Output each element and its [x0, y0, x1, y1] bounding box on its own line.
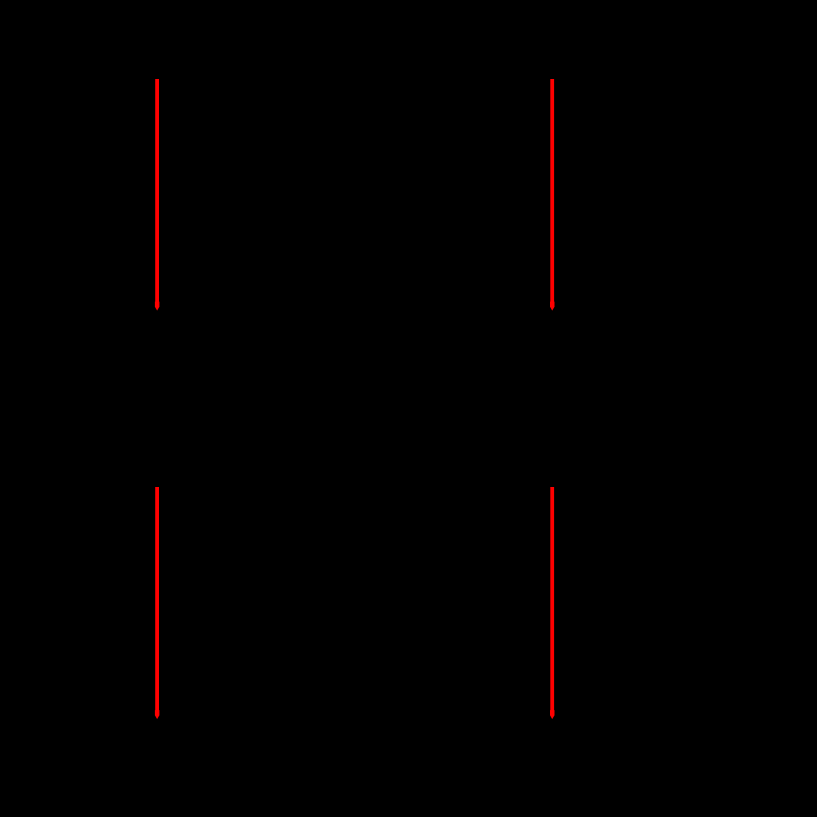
- current arrow i3 (bottom-left, downward): [155, 487, 160, 719]
- wire bottom rail: [157, 759, 552, 761]
- wire left lower branch: [156, 410, 158, 760]
- wire left upper branch: [156, 40, 158, 330]
- current arrow i1 (top-left, downward): [155, 79, 160, 311]
- wire right upper branch: [551, 40, 553, 330]
- resistor R2: [537, 330, 567, 410]
- wire right lower branch: [551, 410, 553, 760]
- current arrow i4 (bottom-right, downward): [550, 487, 555, 719]
- current arrow i2 (top-right, downward): [550, 79, 555, 311]
- wire top rail: [157, 39, 552, 41]
- resistor R1: [142, 330, 172, 410]
